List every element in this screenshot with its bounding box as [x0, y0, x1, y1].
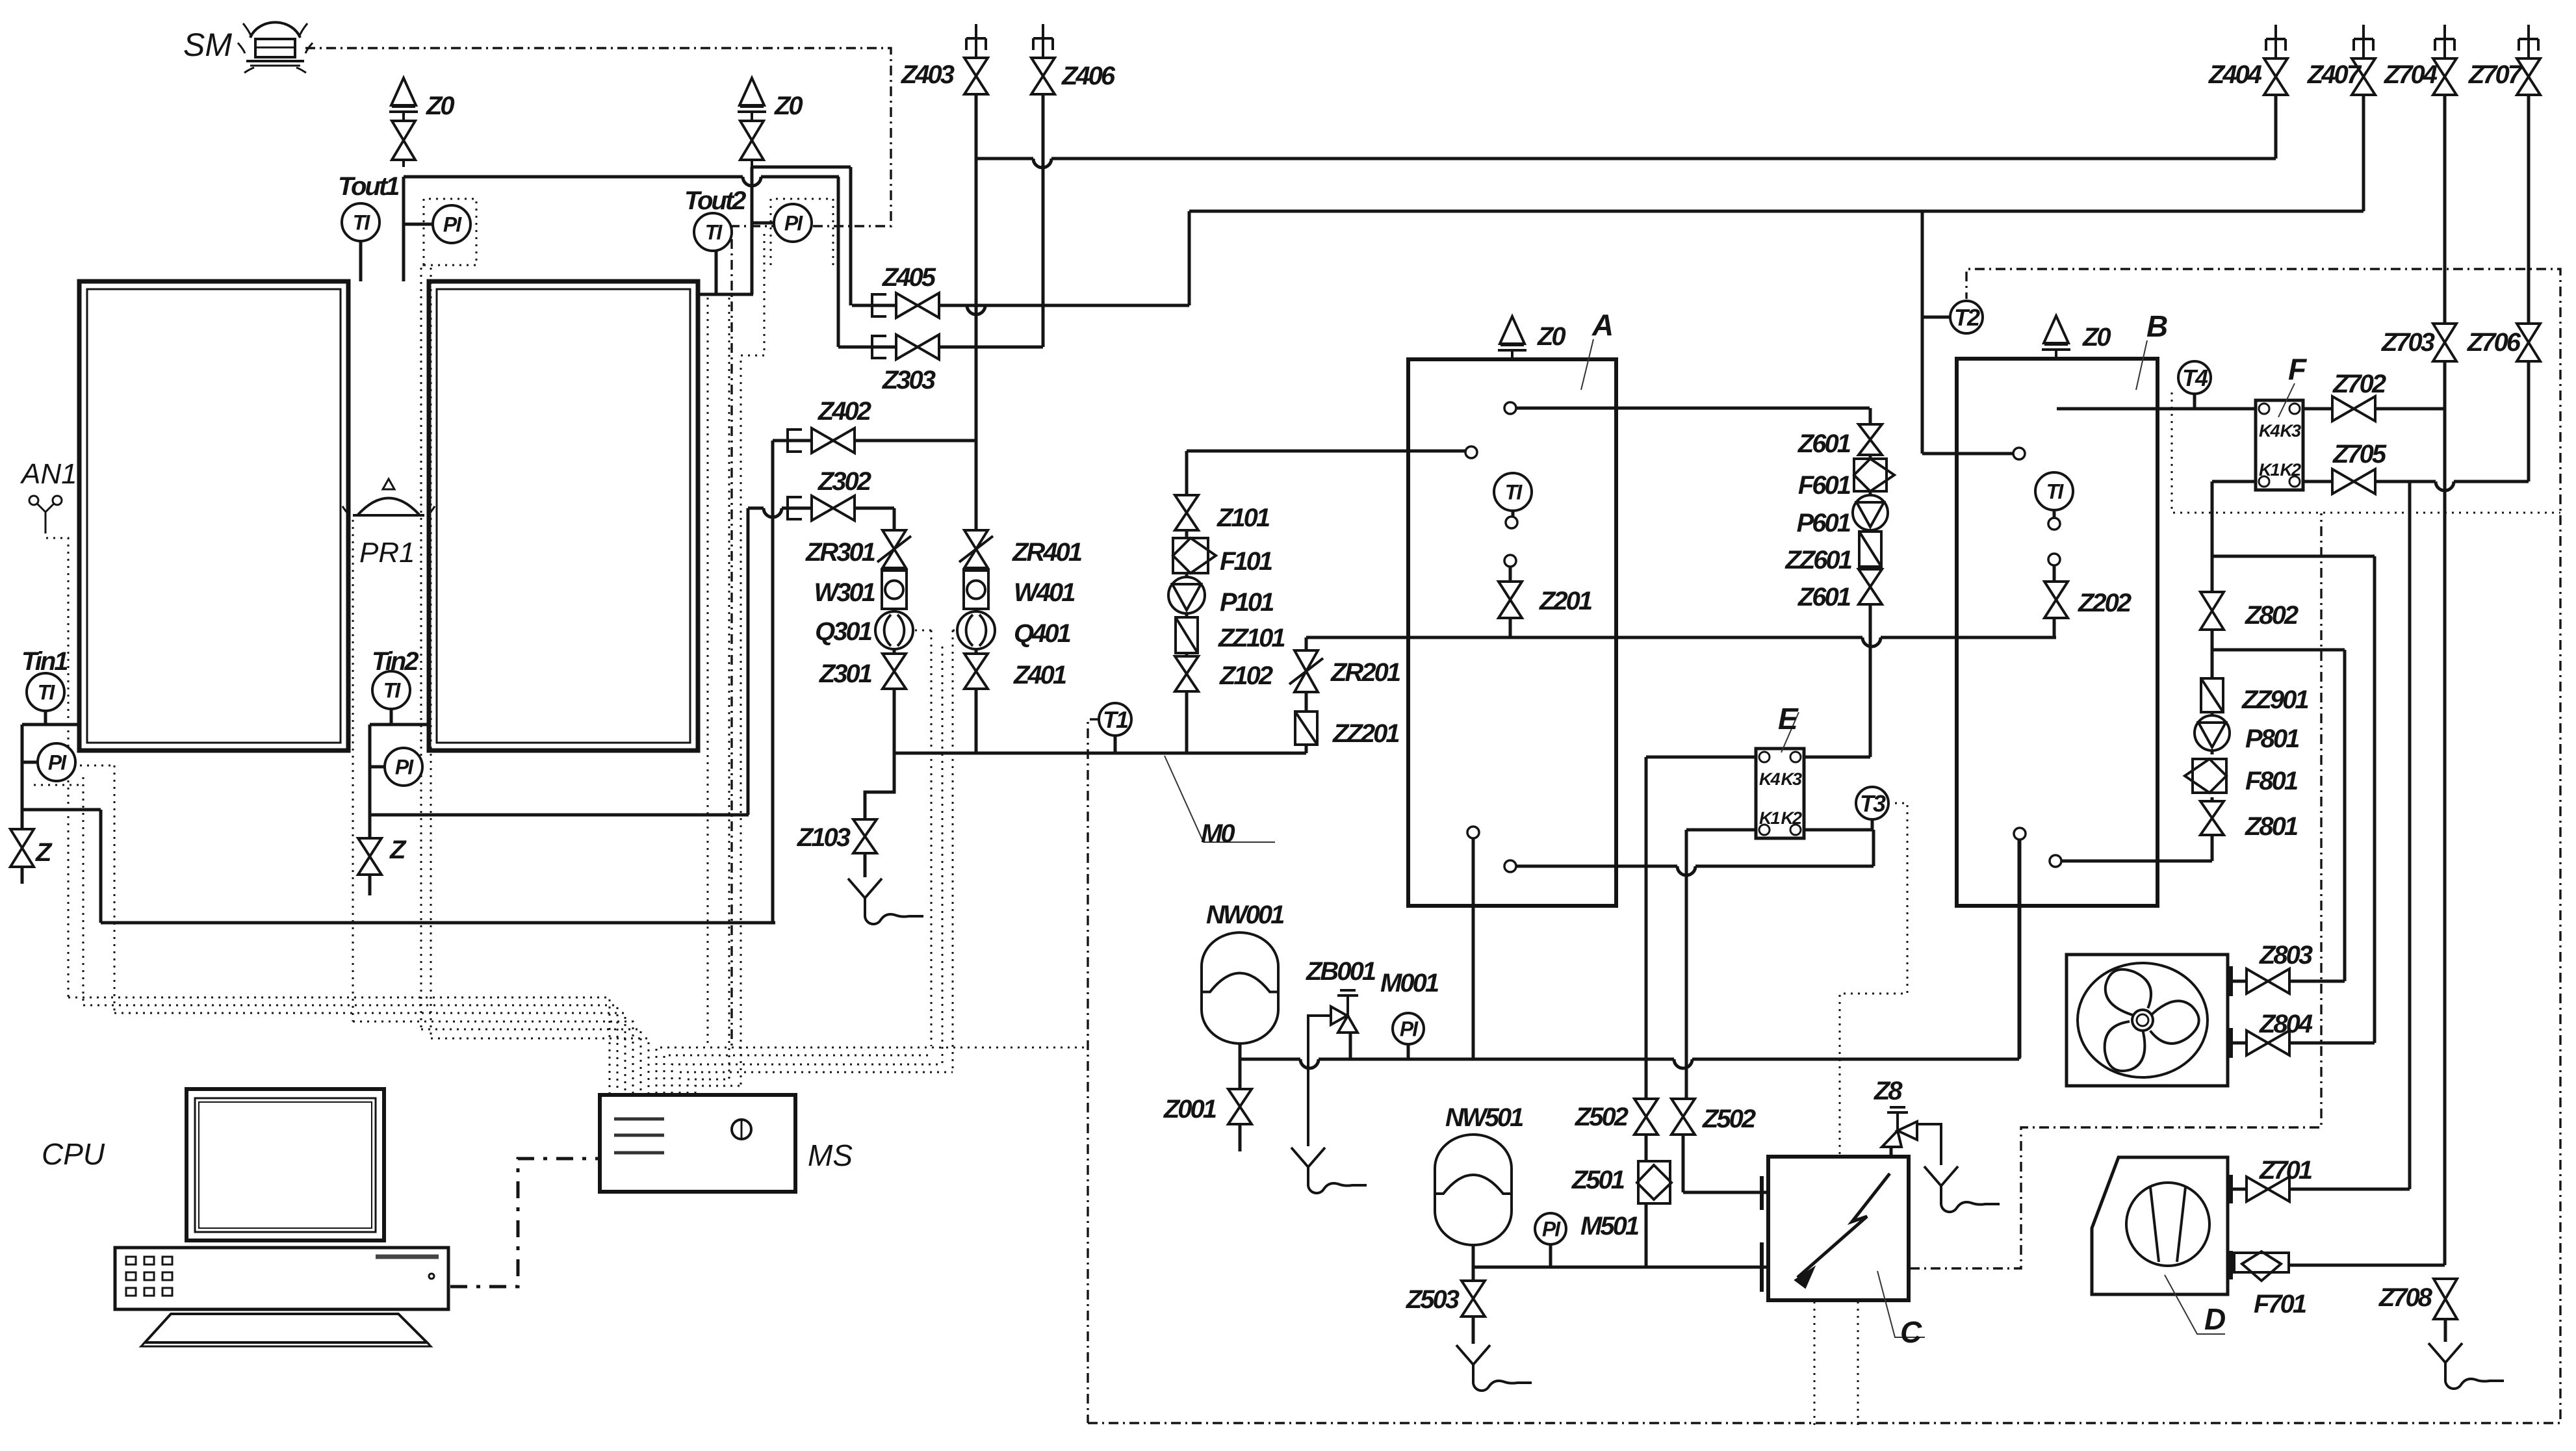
svg-text:Z701: Z701 — [2259, 1156, 2312, 1185]
svg-text:SM: SM — [183, 27, 232, 63]
svg-text:K4: K4 — [1759, 769, 1780, 789]
svg-text:Tin2: Tin2 — [372, 647, 419, 676]
svg-text:Q301: Q301 — [815, 617, 872, 646]
svg-text:ZZ201: ZZ201 — [1332, 719, 1399, 748]
svg-text:K3: K3 — [1781, 769, 1801, 789]
svg-text:K4: K4 — [2259, 421, 2280, 441]
svg-text:P101: P101 — [1220, 588, 1274, 617]
svg-text:ZZ601: ZZ601 — [1784, 546, 1851, 574]
svg-text:T2: T2 — [1954, 304, 1980, 331]
svg-text:TI: TI — [383, 679, 402, 702]
svg-text:Z705: Z705 — [2332, 440, 2387, 469]
svg-text:NW501: NW501 — [1445, 1103, 1523, 1132]
svg-text:B: B — [2146, 309, 2167, 343]
svg-text:Tout2: Tout2 — [684, 186, 746, 215]
svg-text:PI: PI — [1542, 1218, 1561, 1241]
svg-text:Z803: Z803 — [2259, 941, 2313, 969]
svg-text:Z707: Z707 — [2468, 60, 2523, 89]
svg-text:Z601: Z601 — [1797, 430, 1851, 458]
svg-text:K1: K1 — [1759, 808, 1779, 828]
svg-text:W301: W301 — [814, 578, 875, 607]
svg-text:Z403: Z403 — [901, 60, 955, 89]
svg-text:Z802: Z802 — [2245, 601, 2299, 630]
svg-text:TI: TI — [1505, 481, 1523, 504]
svg-text:T3: T3 — [1860, 790, 1886, 817]
svg-text:F601: F601 — [1798, 471, 1851, 500]
svg-text:Z402: Z402 — [818, 397, 871, 426]
svg-text:Z601: Z601 — [1797, 583, 1851, 611]
svg-text:ZR201: ZR201 — [1330, 658, 1400, 687]
svg-text:Z0: Z0 — [2082, 323, 2111, 352]
svg-text:D: D — [2204, 1302, 2225, 1336]
svg-text:Z708: Z708 — [2378, 1283, 2433, 1312]
svg-text:Z405: Z405 — [882, 263, 936, 292]
svg-text:TI: TI — [38, 681, 56, 704]
svg-text:F701: F701 — [2254, 1290, 2306, 1318]
svg-text:F801: F801 — [2245, 767, 2298, 795]
svg-text:C: C — [1900, 1315, 1922, 1349]
svg-text:Z302: Z302 — [818, 467, 871, 496]
svg-text:Z0: Z0 — [1537, 322, 1565, 351]
svg-text:Q401: Q401 — [1014, 619, 1071, 648]
svg-text:ZR401: ZR401 — [1012, 538, 1082, 567]
svg-text:Z502: Z502 — [1702, 1105, 1756, 1133]
svg-text:Z001: Z001 — [1163, 1095, 1217, 1124]
svg-text:PR1: PR1 — [359, 537, 415, 569]
svg-text:T4: T4 — [2182, 365, 2208, 391]
svg-text:P601: P601 — [1797, 509, 1851, 537]
svg-text:Z0: Z0 — [426, 92, 454, 120]
svg-text:Z303: Z303 — [882, 366, 936, 394]
svg-text:Z0: Z0 — [774, 92, 803, 120]
svg-text:K3: K3 — [2280, 421, 2300, 441]
svg-text:K2: K2 — [2280, 460, 2300, 480]
svg-text:Z503: Z503 — [1406, 1285, 1460, 1314]
svg-text:Z101: Z101 — [1217, 504, 1270, 532]
svg-text:M0: M0 — [1201, 819, 1235, 848]
svg-text:Z703: Z703 — [2381, 328, 2435, 357]
svg-text:Z704: Z704 — [2384, 60, 2438, 89]
svg-text:Z502: Z502 — [1575, 1103, 1629, 1131]
svg-text:CPU: CPU — [42, 1137, 105, 1171]
svg-text:Z406: Z406 — [1061, 62, 1116, 90]
svg-text:NW001: NW001 — [1206, 901, 1284, 929]
svg-text:P801: P801 — [2245, 725, 2299, 753]
svg-text:TI: TI — [353, 211, 371, 235]
svg-text:A: A — [1591, 308, 1612, 342]
svg-text:Z804: Z804 — [2259, 1010, 2313, 1038]
svg-text:PI: PI — [784, 212, 803, 235]
svg-text:Z407: Z407 — [2307, 60, 2362, 89]
svg-text:M501: M501 — [1580, 1212, 1639, 1240]
svg-text:ZB001: ZB001 — [1306, 957, 1376, 986]
svg-text:PI: PI — [443, 213, 462, 237]
svg-text:Z401: Z401 — [1013, 661, 1066, 689]
svg-text:PI: PI — [1400, 1018, 1419, 1041]
svg-text:E: E — [1778, 702, 1799, 736]
svg-text:Z103: Z103 — [797, 823, 851, 852]
svg-text:ZZ101: ZZ101 — [1218, 624, 1285, 652]
svg-text:F101: F101 — [1220, 547, 1272, 576]
svg-text:Z8: Z8 — [1874, 1077, 1903, 1105]
svg-text:K1: K1 — [2259, 460, 2279, 480]
svg-text:K2: K2 — [1781, 808, 1801, 828]
svg-text:Z706: Z706 — [2467, 328, 2521, 357]
svg-text:Z202: Z202 — [2078, 589, 2132, 617]
svg-text:M001: M001 — [1380, 969, 1439, 997]
svg-text:PI: PI — [395, 756, 414, 779]
svg-text:W401: W401 — [1014, 578, 1075, 607]
svg-text:Z201: Z201 — [1539, 587, 1592, 615]
svg-text:ZR301: ZR301 — [805, 538, 875, 567]
svg-text:TI: TI — [705, 221, 723, 244]
svg-text:ZZ901: ZZ901 — [2241, 686, 2308, 714]
svg-text:Z404: Z404 — [2208, 60, 2262, 89]
svg-text:Tin1: Tin1 — [21, 647, 68, 676]
svg-text:Tout1: Tout1 — [338, 172, 399, 201]
svg-text:Z702: Z702 — [2332, 370, 2386, 398]
svg-text:Z501: Z501 — [1571, 1166, 1625, 1194]
svg-text:MS: MS — [808, 1138, 853, 1172]
svg-text:AN1: AN1 — [19, 458, 77, 490]
svg-text:T1: T1 — [1103, 706, 1128, 733]
svg-text:PI: PI — [48, 751, 67, 775]
svg-text:Z301: Z301 — [819, 660, 872, 688]
svg-text:Z102: Z102 — [1219, 661, 1273, 690]
svg-text:TI: TI — [2046, 480, 2065, 504]
svg-text:Z801: Z801 — [2245, 812, 2298, 841]
